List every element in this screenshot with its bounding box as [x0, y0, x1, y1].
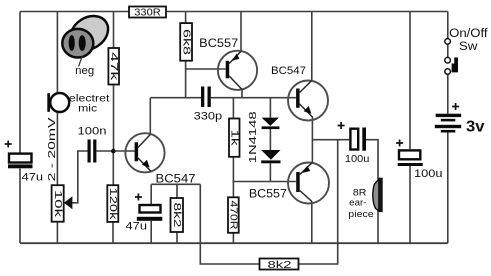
- capacitor 100u supply: [396, 140, 442, 180]
- transistor Q2 BC557: [199, 38, 257, 90]
- wire 47k top: [113, 12, 115, 49]
- wire 1k bottom: [232, 157, 234, 182]
- wire 1k top: [232, 98, 234, 119]
- capacitor 100n: [78, 126, 107, 163]
- resistor 120k: [107, 185, 119, 222]
- wire 120k bottom: [112, 222, 114, 243]
- resistor 8k2 feedback: [260, 259, 299, 272]
- wire Q2 emitter: [240, 12, 242, 52]
- capacitor 47u electrolytic left: [5, 141, 43, 184]
- wire 8k2 vertical bottom: [176, 232, 178, 243]
- wire Q4 collector: [311, 202, 313, 244]
- capacitor 330p: [194, 87, 223, 123]
- wire 47k bottom to node A: [113, 85, 115, 152]
- wire Q2 base: [186, 68, 226, 70]
- svg-text:1N4148: 1N4148: [248, 111, 259, 164]
- svg-text:1k: 1k: [228, 130, 240, 147]
- wire Q1 base: [96, 150, 134, 152]
- wire Q3 collector: [311, 12, 313, 81]
- wire top rail: [20, 11, 448, 13]
- svg-text:BC547: BC547: [271, 65, 306, 77]
- electret mic symbol: [47, 93, 69, 112]
- svg-text:100u: 100u: [345, 153, 370, 165]
- wire 100u2 top: [409, 12, 411, 150]
- svg-text:piece: piece: [348, 209, 373, 219]
- switch On/Off: [445, 39, 458, 75]
- wire pot bottom: [56, 222, 58, 244]
- wire 470R bottom: [232, 233, 234, 243]
- wire 330p to Q3 base: [211, 97, 296, 99]
- svg-text:8k2: 8k2: [171, 203, 183, 228]
- resistor 47k: [108, 48, 120, 85]
- resistor 1k: [228, 119, 240, 157]
- wire 470R top: [232, 182, 234, 198]
- potentiometer 10k: [52, 185, 73, 222]
- svg-text:470R: 470R: [228, 200, 240, 229]
- svg-text:47k: 47k: [108, 52, 120, 81]
- resistor 470R: [228, 197, 240, 233]
- resistor 6k8: [180, 23, 192, 61]
- wire mic column mid: [56, 112, 58, 186]
- resistor 330R: [129, 7, 166, 19]
- wire 47u2 bottom: [150, 221, 152, 243]
- svg-text:120k: 120k: [107, 188, 119, 221]
- svg-text:ear-: ear-: [349, 197, 366, 207]
- wire 100u to earpiece: [366, 140, 378, 180]
- battery 3v: [435, 103, 461, 133]
- wire battery to bus: [447, 133, 449, 244]
- wire right rail to switch: [447, 12, 449, 39]
- wire left rail lower: [19, 169, 21, 244]
- svg-text:8k2: 8k2: [268, 259, 292, 271]
- wire 47u2 top: [150, 184, 152, 204]
- wire collector node left: [150, 97, 201, 99]
- wire earpiece bottom: [377, 211, 379, 243]
- svg-text:100n: 100n: [78, 126, 107, 138]
- transistor Q3 BC547: [271, 65, 328, 121]
- svg-text:BC557: BC557: [199, 38, 238, 50]
- wire diode top: [269, 98, 271, 118]
- wire Q1 collector: [149, 98, 151, 134]
- svg-text:mic: mic: [78, 102, 97, 114]
- wire Q4 base line: [232, 181, 296, 183]
- wire pot wiper: [72, 151, 88, 203]
- wire feedback right: [299, 140, 338, 264]
- capacitor 47u electrolytic Q1 emitter: [126, 194, 163, 233]
- svg-text:10k: 10k: [52, 190, 64, 218]
- wire Q1 emitter node: [151, 183, 200, 185]
- svg-text:47u: 47u: [126, 220, 148, 232]
- diode 1N4148 D1: [262, 118, 280, 130]
- neg pointer line: [79, 56, 83, 67]
- wire Q2 collector: [241, 89, 243, 97]
- svg-text:330p: 330p: [194, 111, 223, 123]
- electret mic cylinder graphic: [62, 9, 114, 57]
- wire 6k8 top: [185, 12, 187, 24]
- capacitor 100u output: [338, 122, 370, 165]
- wire mic column upper: [56, 12, 58, 94]
- wire feedback down: [200, 184, 259, 264]
- svg-text:2 - 20mV: 2 - 20mV: [46, 117, 58, 181]
- earpiece symbol: [373, 178, 383, 212]
- svg-text:Sw: Sw: [459, 41, 478, 53]
- wire bottom bus: [20, 242, 448, 244]
- svg-text:8R: 8R: [353, 187, 367, 197]
- potentiometer wiper arrow: [64, 196, 73, 209]
- wire switch middle: [447, 44, 449, 57]
- wire 8k2 vertical top: [176, 184, 178, 198]
- svg-text:BC547: BC547: [156, 173, 196, 185]
- svg-text:100u: 100u: [414, 168, 443, 180]
- diode 1N4148 D2: [261, 150, 280, 163]
- svg-text:330R: 330R: [134, 7, 161, 19]
- wire node A to 120k top: [112, 151, 114, 185]
- wire emitter rail Q3-Q4: [311, 118, 313, 163]
- wire switch to battery: [447, 74, 449, 113]
- svg-text:6k8: 6k8: [180, 29, 192, 55]
- svg-text:On/Off: On/Off: [449, 28, 488, 40]
- resistor 8k2 vertical: [171, 198, 184, 232]
- wire 100u2 bottom: [409, 166, 411, 243]
- wire 6k8 bottom: [185, 61, 187, 98]
- svg-text:47u: 47u: [22, 171, 43, 183]
- transistor Q1 BC547: [125, 133, 195, 185]
- wire left rail upper: [19, 12, 21, 154]
- svg-text:BC557: BC557: [249, 189, 287, 201]
- node A junction dot: [111, 149, 116, 154]
- wire between diodes: [269, 129, 271, 150]
- wire diode bottom: [269, 163, 271, 181]
- transistor Q4 BC557: [249, 162, 329, 203]
- svg-text:3v: 3v: [466, 119, 485, 136]
- wire output to 100u: [312, 139, 349, 141]
- svg-text:neg: neg: [75, 65, 94, 77]
